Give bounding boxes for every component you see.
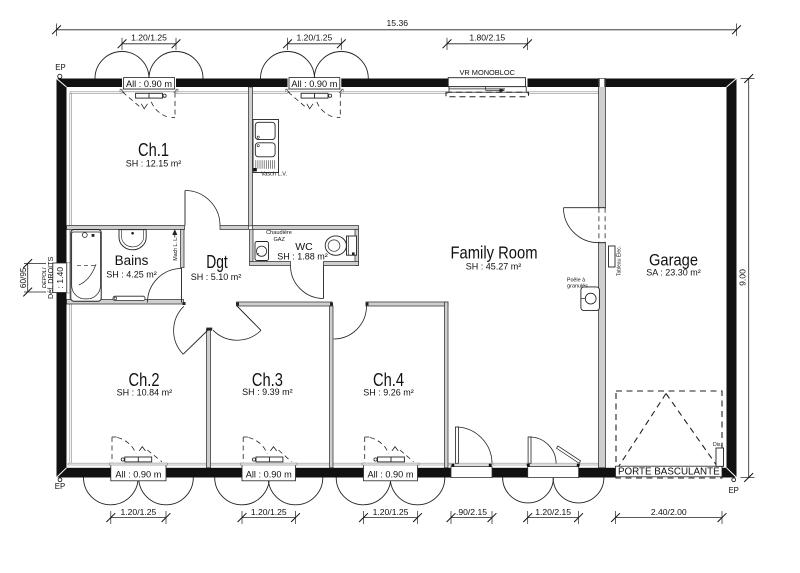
door Garage swing [564, 208, 599, 243]
svg-text:SH : 10.84 m²: SH : 10.84 m² [117, 388, 173, 398]
door Ch.1 swing [185, 191, 220, 226]
door Ch.4 swing [334, 306, 367, 339]
window Ch.1 left sill [120, 89, 178, 92]
dimension 1.20/1.25 [288, 43, 342, 45]
entrance door leaf [455, 427, 458, 463]
svg-text:Vasch L.V.: Vasch L.V. [261, 172, 288, 178]
svg-text:SH : 4.25 m²: SH : 4.25 m² [106, 269, 157, 279]
svg-text:60/95: 60/95 [19, 267, 28, 288]
wall Family Room / Garage upper [599, 79, 606, 208]
interior lining left wall [70, 94, 72, 264]
wall Bains right [181, 230, 185, 268]
svg-text:SH : 1.88 m²: SH : 1.88 m² [277, 251, 328, 261]
garage door porte basculante dashed panel [616, 391, 722, 478]
wall Ch.4 right [445, 302, 449, 468]
wall Ch.1 door right segment [220, 226, 249, 230]
interior lining top wall [70, 92, 122, 94]
window Ch.1 right sill [286, 89, 344, 92]
washing machine arrow (Mach L.L.) [174, 232, 176, 238]
french door left leaf [528, 437, 531, 463]
svg-text:granulés: granulés [567, 283, 588, 289]
pellet stove (poele a granules) [581, 287, 600, 311]
svg-text:1.20/1.25: 1.20/1.25 [131, 33, 167, 43]
wall corner mitre seams [57, 79, 67, 88]
window Ch.2 shutter arcs [84, 478, 139, 505]
exterior wall left [57, 79, 67, 264]
wall Family Room / Garage lower [599, 243, 606, 468]
door WC swing [291, 266, 324, 299]
dimension 1.20/2.15 bottom [528, 517, 579, 519]
Bains vanity basin [119, 230, 146, 250]
window Ch.1 right shutter arcs [261, 52, 315, 79]
svg-text:All : 0.90 m: All : 0.90 m [368, 469, 414, 479]
bathtub [71, 230, 101, 302]
svg-text:Family Room: Family Room [451, 243, 538, 263]
wall WC right [355, 230, 359, 266]
window Ch.2 sill [109, 463, 167, 465]
window VR MONOBLOC frame [448, 78, 525, 87]
wall Ch.2-Ch.3 divider [207, 330, 211, 468]
svg-text:1.80/2.15: 1.80/2.15 [469, 33, 505, 43]
svg-text:Dgt: Dgt [206, 252, 228, 272]
wall WC bottom left segment [250, 262, 291, 266]
wall Bains bottom / Ch.2 top [67, 300, 184, 305]
EP bottom-left [58, 478, 62, 482]
svg-text:EP: EP [55, 63, 65, 72]
window Ch.1 left casement glazing [136, 93, 163, 98]
hinge marks at hall doorways [183, 302, 186, 305]
window Ch.1 left dashed opening swing [123, 92, 142, 108]
door Ch.2 leaf [183, 331, 207, 355]
window Ch.1 right casement glazing [301, 93, 328, 98]
svg-text:SH : 45.27 m²: SH : 45.27 m² [466, 261, 522, 271]
wall WC top [253, 226, 359, 230]
toilet [347, 236, 357, 255]
window Ch.3 dashed opening swing [242, 437, 244, 463]
dimension 15.36 overall [57, 29, 737, 31]
svg-text:EP: EP [55, 482, 65, 491]
window Ch.4 label box [364, 464, 418, 480]
wall kitchen divider (Ch.1 / Family Room) [249, 87, 253, 226]
window Ch.1 right label box [289, 78, 340, 89]
exterior wall right [727, 79, 737, 478]
svg-text:: 1.40: : 1.40 [55, 267, 65, 289]
svg-text:1.20/1.25: 1.20/1.25 [251, 507, 287, 517]
window Ch.3 label box [242, 464, 296, 480]
door Garage leaf [564, 207, 599, 209]
svg-text:All : 0.90 m: All : 0.90 m [115, 469, 161, 479]
entrance door threshold [451, 467, 492, 478]
svg-text:1.20/1.25: 1.20/1.25 [120, 507, 156, 517]
svg-text:VR MONOBLOC: VR MONOBLOC [459, 68, 515, 77]
window Ch.2 dashed opening swing [111, 437, 113, 463]
door Bains leaf [181, 268, 183, 303]
window Ch.4 shutter arcs [336, 478, 391, 505]
garage wall junction notch in top wall [599, 79, 604, 87]
window Ch.1 right dashed opening swing [288, 92, 307, 108]
wall Ch.3-Ch.4 divider [330, 306, 334, 468]
left window sill [67, 263, 70, 294]
wall Ch.3 top [237, 302, 333, 306]
window Ch.2 label box [111, 464, 166, 480]
door WC leaf [323, 266, 325, 299]
dimension 1.20/1.25 bottom [364, 517, 418, 519]
window Ch.4 dashed opening swing [364, 437, 366, 463]
wall Ch.4 top [366, 302, 448, 306]
svg-text:SA : 23.30 m²: SA : 23.30 m² [646, 267, 701, 277]
door Ch.2 swing [174, 306, 184, 354]
wall Bains-Ch.1 top (left of Ch.1 door) [67, 226, 185, 230]
entrance door swing [457, 427, 492, 463]
exterior wall bottom [57, 468, 111, 478]
svg-text:Ch.1: Ch.1 [138, 140, 169, 160]
french door shutter arcs [503, 478, 554, 503]
svg-text:Chaudière: Chaudière [266, 230, 292, 236]
WC boiler (chaudiere) [255, 242, 269, 261]
window Ch.4 sill [362, 463, 419, 465]
svg-text:2.40/2.00: 2.40/2.00 [651, 507, 687, 517]
window Ch.3 casement glazing [256, 457, 283, 462]
svg-text:1.20/1.25: 1.20/1.25 [373, 507, 409, 517]
french door threshold [528, 467, 579, 478]
svg-text:1.20/2.15: 1.20/2.15 [535, 507, 571, 517]
svg-text:.90/2.15: .90/2.15 [456, 507, 487, 517]
svg-text:Déf. DROITS: Déf. DROITS [46, 256, 55, 299]
bathtub faucet [82, 233, 87, 238]
dimension 9.00 right [748, 79, 750, 478]
window VR sliding arrow [485, 87, 487, 91]
exterior wall top [57, 79, 123, 88]
dimension 2.40/2.00 bottom [616, 517, 723, 519]
svg-text:15.36: 15.36 [387, 18, 409, 28]
window Ch.3 sill [241, 463, 298, 465]
svg-text:1.20/1.25: 1.20/1.25 [296, 33, 332, 43]
svg-text:SH : 12.15 m²: SH : 12.15 m² [126, 159, 182, 169]
svg-text:Tableau Élec.: Tableau Élec. [616, 246, 623, 276]
window Ch.2 casement glazing [125, 457, 152, 462]
svg-text:PORTE BASCULANTE: PORTE BASCULANTE [618, 467, 720, 478]
svg-text:9.00: 9.00 [737, 269, 747, 286]
svg-text:All : 0.90 m: All : 0.90 m [126, 79, 172, 89]
door Garage dashed opening [598, 208, 600, 243]
interior lining bottom wall [68, 463, 111, 465]
dimension 1.20/1.25 bottom [111, 517, 166, 519]
svg-text:SH : 9.39 m²: SH : 9.39 m² [242, 387, 293, 397]
door Ch.1 leaf [184, 191, 186, 226]
door Ch.3 leaf [237, 306, 261, 330]
dimension 60/95 [27, 264, 29, 293]
door Ch.3 swing [213, 330, 261, 340]
window Ch.1 left shutter arcs [95, 52, 149, 79]
kitchen sink unit Vasch L.V. [253, 120, 279, 173]
svg-text:GAZ: GAZ [273, 237, 285, 243]
left window (Bains) label box [53, 263, 67, 293]
garage disjoncteur [716, 448, 724, 466]
wall WC bottom right segment [324, 262, 359, 266]
window Ch.3 shutter arcs [215, 478, 270, 505]
svg-text:All : 0.90 m: All : 0.90 m [291, 79, 337, 89]
garage door label box [616, 466, 723, 477]
Bains radiator shelf [113, 296, 145, 300]
wall WC left [250, 230, 254, 262]
window VR dashed roller casing [446, 92, 529, 97]
french door right leaf open [557, 446, 581, 463]
sink drainer hatch [255, 160, 257, 169]
french door left swing [530, 437, 557, 464]
svg-text:Bains: Bains [115, 253, 149, 268]
svg-text:All : 0.90 m: All : 0.90 m [246, 469, 292, 479]
EP bottom-right [732, 478, 736, 482]
window Ch.1 left label box [124, 78, 175, 89]
dimension 1.20/1.25 bottom [242, 517, 296, 519]
svg-text:SH : 5.10 m²: SH : 5.10 m² [191, 272, 242, 282]
svg-text:EP: EP [728, 486, 738, 495]
bathtub interior marks [77, 264, 96, 266]
door Bains swing [148, 269, 182, 303]
electrical panel (tableau elec) [609, 246, 616, 267]
svg-text:Mach L. L.: Mach L. L. [173, 236, 179, 260]
dimension .90/2.15 bottom [451, 517, 492, 519]
dimension 1.80/2.15 [447, 43, 528, 45]
dimension 1.20/1.25 [122, 43, 176, 45]
svg-text:Dis.: Dis. [713, 442, 722, 448]
svg-text:SH : 9.26 m²: SH : 9.26 m² [363, 388, 414, 398]
window Ch.4 casement glazing [378, 457, 405, 462]
